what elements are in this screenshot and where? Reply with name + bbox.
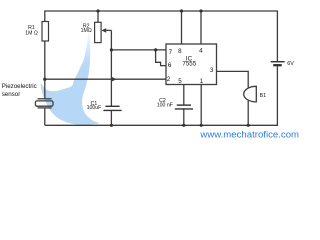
svg-text:www.mechatrofice.com: www.mechatrofice.com — [199, 129, 299, 138]
svg-text:2: 2 — [167, 76, 171, 83]
svg-text:6: 6 — [168, 62, 172, 69]
svg-text:Piezoelectric: Piezoelectric — [2, 83, 37, 90]
svg-text:1: 1 — [200, 78, 204, 85]
svg-text:sensor: sensor — [2, 91, 21, 98]
svg-text:1M Ω: 1M Ω — [25, 30, 38, 36]
svg-text:4: 4 — [199, 48, 203, 55]
svg-text:5: 5 — [178, 78, 182, 85]
svg-text:7: 7 — [169, 49, 173, 56]
svg-text:3: 3 — [210, 67, 214, 74]
svg-text:6V: 6V — [287, 61, 294, 67]
svg-text:100uF: 100uF — [87, 105, 102, 111]
svg-text:1MΩ: 1MΩ — [81, 28, 92, 34]
svg-text:8: 8 — [178, 48, 182, 55]
svg-text:7555: 7555 — [182, 61, 196, 68]
svg-text:100 nF: 100 nF — [157, 102, 173, 108]
svg-text:B1: B1 — [260, 93, 266, 99]
